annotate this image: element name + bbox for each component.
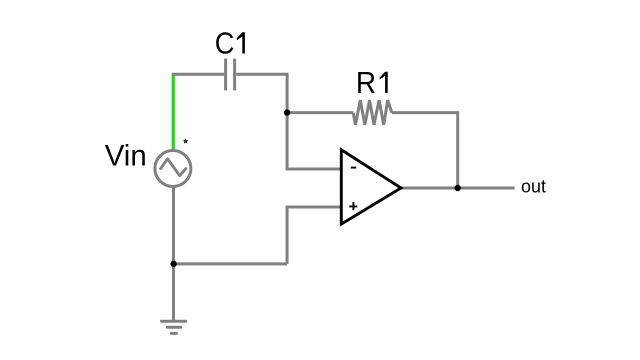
svg-text:out: out — [521, 177, 546, 197]
svg-text:R: R — [356, 65, 376, 100]
svg-text:C: C — [215, 26, 235, 61]
svg-text:Vin: Vin — [105, 140, 147, 173]
